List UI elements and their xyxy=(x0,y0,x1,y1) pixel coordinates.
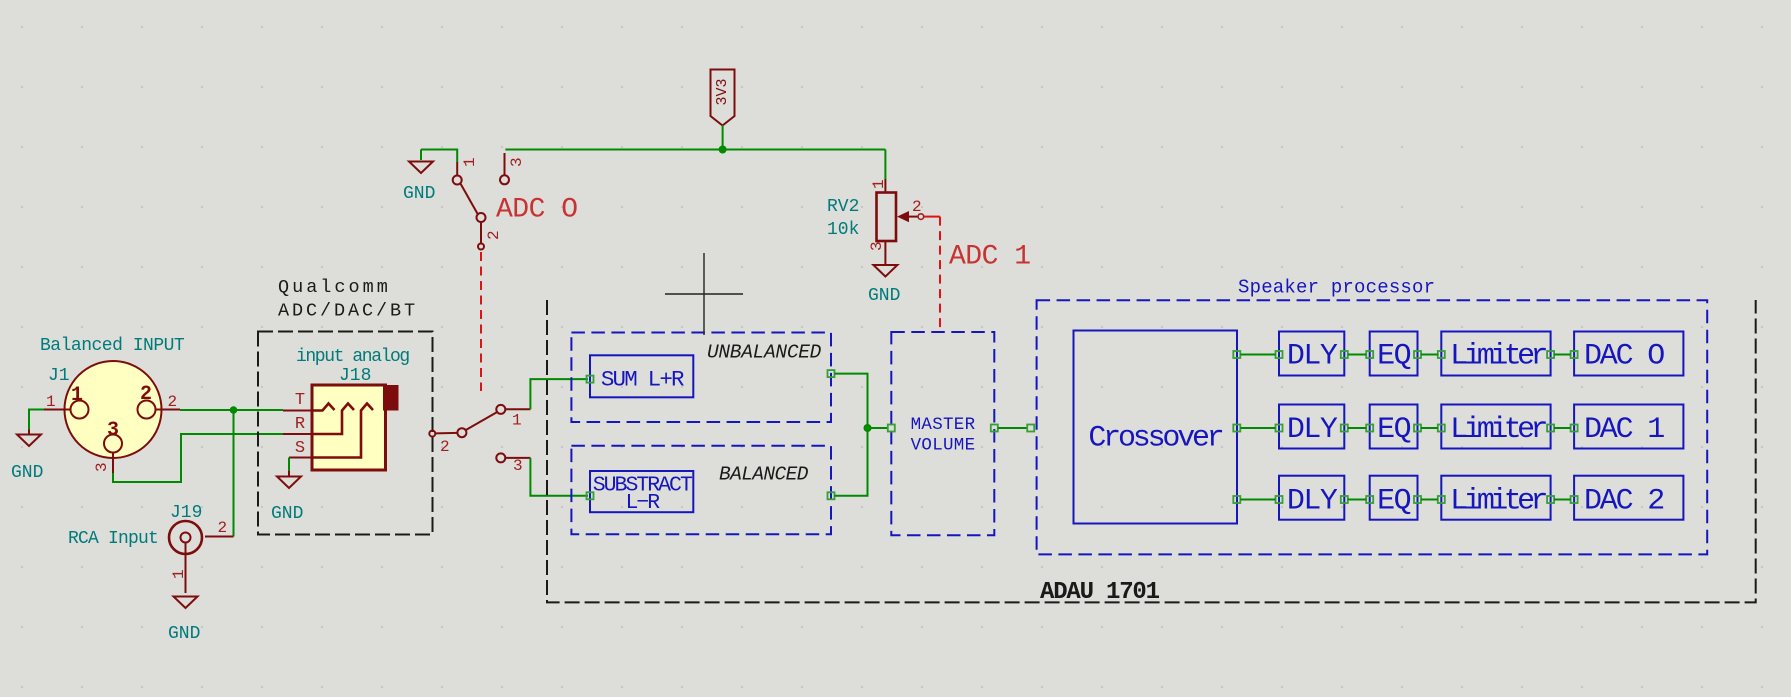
svg-text:2: 2 xyxy=(440,438,450,456)
pin square xyxy=(1276,496,1283,503)
svg-text:DAC O: DAC O xyxy=(1584,340,1664,374)
sheet Speaker processor xyxy=(1037,300,1708,554)
svg-text:R: R xyxy=(295,415,305,434)
sheet MASTER VOLUME xyxy=(891,332,994,535)
wire xyxy=(421,150,457,163)
svg-text:2: 2 xyxy=(168,393,178,411)
sheet UNBALANCED xyxy=(571,333,831,423)
block Limiter row2 xyxy=(1441,405,1550,449)
svg-text:3: 3 xyxy=(868,241,886,251)
svg-text:VOLUME: VOLUME xyxy=(911,436,976,456)
svg-text:Crossover: Crossover xyxy=(1088,422,1222,456)
box Qualcomm xyxy=(258,332,433,535)
pin square xyxy=(1414,351,1421,358)
svg-text:ADAU 1701: ADAU 1701 xyxy=(1040,579,1160,606)
wire xyxy=(998,427,1027,429)
block Crossover xyxy=(1074,331,1238,524)
pin square xyxy=(1366,351,1373,358)
wire xyxy=(288,458,290,472)
svg-text:DLY: DLY xyxy=(1287,485,1338,519)
pin square xyxy=(1571,351,1578,358)
connector J18 jack xyxy=(283,366,399,470)
block EQ row2 xyxy=(1370,405,1418,449)
svg-text:GND: GND xyxy=(868,286,900,306)
pin square xyxy=(1547,425,1554,432)
wire xyxy=(233,410,235,537)
pin square xyxy=(587,376,594,383)
wire xyxy=(113,434,283,482)
connector J19 RCA xyxy=(68,503,234,593)
junction xyxy=(719,146,727,154)
block DAC 0 xyxy=(1574,332,1683,376)
switch SW2 xyxy=(429,405,530,475)
svg-text:3: 3 xyxy=(508,157,526,167)
block DLY row1 xyxy=(1279,332,1344,376)
pin square xyxy=(1571,425,1578,432)
svg-text:RCA Input: RCA Input xyxy=(68,529,158,549)
svg-text:Speaker processor: Speaker processor xyxy=(1238,277,1435,299)
pin square xyxy=(1341,425,1348,432)
svg-text:10k: 10k xyxy=(827,220,859,240)
svg-text:3: 3 xyxy=(513,457,523,475)
pin square xyxy=(1366,425,1373,432)
pin square xyxy=(1276,351,1283,358)
ground xyxy=(868,265,900,306)
svg-text:1: 1 xyxy=(71,384,83,407)
block EQ row1 xyxy=(1370,332,1418,376)
potentiometer RV2 xyxy=(827,150,924,265)
wire xyxy=(530,379,588,409)
pin square xyxy=(991,425,998,432)
pin square xyxy=(828,492,835,499)
svg-text:EQ: EQ xyxy=(1377,413,1411,447)
svg-text:GND: GND xyxy=(168,624,200,644)
wire xyxy=(530,458,588,496)
wire xyxy=(722,125,724,150)
svg-text:1: 1 xyxy=(46,393,56,411)
svg-text:GND: GND xyxy=(271,504,303,524)
wire red to ADC1 xyxy=(924,216,940,218)
svg-text:J1: J1 xyxy=(48,366,70,386)
sheet BALANCED xyxy=(571,446,831,535)
block DAC 1 xyxy=(1574,405,1683,449)
dashed net line ADC1 xyxy=(939,217,941,331)
wire xyxy=(835,428,868,496)
block EQ row3 xyxy=(1370,476,1418,520)
pin square xyxy=(888,425,895,432)
svg-text:1: 1 xyxy=(170,569,188,579)
svg-text:3: 3 xyxy=(93,462,111,472)
svg-text:Limiter: Limiter xyxy=(1450,340,1546,374)
pin square xyxy=(1366,496,1373,503)
pin square xyxy=(1547,496,1554,503)
wire xyxy=(1240,354,1275,356)
svg-text:EQ: EQ xyxy=(1377,485,1411,519)
pin square xyxy=(1547,351,1554,358)
svg-text:S: S xyxy=(295,439,305,458)
svg-text:BALANCED: BALANCED xyxy=(719,464,809,486)
svg-text:DAC 2: DAC 2 xyxy=(1584,485,1663,519)
svg-text:Qualcomm: Qualcomm xyxy=(278,277,391,298)
wire xyxy=(835,374,868,428)
pin square xyxy=(1438,425,1445,432)
svg-text:ADC O: ADC O xyxy=(496,195,578,226)
block DLY row3 xyxy=(1279,476,1344,520)
svg-text:RV2: RV2 xyxy=(827,197,859,217)
pin square xyxy=(1438,496,1445,503)
svg-text:2: 2 xyxy=(485,230,503,240)
pin square xyxy=(587,492,594,499)
svg-text:1: 1 xyxy=(512,412,522,430)
switch SW ADC0 xyxy=(453,153,526,250)
pin square xyxy=(1571,496,1578,503)
svg-text:ADC 1: ADC 1 xyxy=(949,242,1031,273)
block Limiter row1 xyxy=(1441,332,1550,376)
pin square xyxy=(1233,496,1240,503)
connector J1 XLR xyxy=(44,361,180,473)
svg-text:EQ: EQ xyxy=(1377,340,1411,374)
svg-text:DLY: DLY xyxy=(1287,413,1338,447)
junction xyxy=(864,424,872,432)
svg-text:UNBALANCED: UNBALANCED xyxy=(707,342,822,364)
block DLY row2 xyxy=(1279,405,1344,449)
pin square xyxy=(1414,496,1421,503)
svg-text:Limiter: Limiter xyxy=(1450,485,1546,519)
svg-text:1: 1 xyxy=(870,179,888,189)
svg-text:2: 2 xyxy=(140,383,152,406)
svg-text:SUM L+R: SUM L+R xyxy=(601,367,684,393)
pin square xyxy=(828,370,835,377)
pin square xyxy=(1438,351,1445,358)
svg-text:2: 2 xyxy=(218,519,228,537)
wire xyxy=(505,149,885,151)
svg-text:3V3: 3V3 xyxy=(714,78,731,105)
wire xyxy=(29,410,44,430)
wire xyxy=(868,427,888,429)
dashed net line ADC0 xyxy=(480,252,482,391)
svg-text:input analog: input analog xyxy=(296,347,409,367)
svg-text:Balanced INPUT: Balanced INPUT xyxy=(40,336,185,356)
block DAC 2 xyxy=(1574,476,1683,520)
junction xyxy=(230,406,238,414)
pin square xyxy=(1341,496,1348,503)
pin square xyxy=(1414,425,1421,432)
box ADAU 1701 xyxy=(547,300,1756,602)
pin square xyxy=(1341,351,1348,358)
svg-text:3: 3 xyxy=(107,419,119,442)
ground xyxy=(403,150,435,205)
svg-text:L−R: L−R xyxy=(625,491,660,515)
svg-text:DAC 1: DAC 1 xyxy=(1584,413,1664,447)
wire xyxy=(180,409,283,411)
ground xyxy=(11,430,43,484)
svg-text:2: 2 xyxy=(912,198,922,216)
wire xyxy=(1240,427,1275,429)
pin square xyxy=(1233,425,1240,432)
wire xyxy=(1240,499,1275,501)
svg-text:1: 1 xyxy=(461,157,479,167)
svg-text:GND: GND xyxy=(11,463,43,483)
pin square xyxy=(1027,425,1034,432)
block Limiter row3 xyxy=(1441,476,1550,520)
svg-text:ADC/DAC/BT: ADC/DAC/BT xyxy=(278,301,418,322)
svg-text:MASTER: MASTER xyxy=(911,415,976,435)
pin square xyxy=(1276,425,1283,432)
block SUBSTRACT L-R xyxy=(590,471,693,515)
block SUM L+R xyxy=(590,355,693,397)
power 3V3 xyxy=(711,70,735,126)
ground xyxy=(271,471,303,524)
svg-text:J18: J18 xyxy=(339,366,371,386)
ground xyxy=(168,597,200,645)
svg-text:T: T xyxy=(295,391,305,410)
cross graphic xyxy=(665,253,743,335)
svg-text:Limiter: Limiter xyxy=(1450,413,1546,447)
svg-text:GND: GND xyxy=(403,184,435,204)
svg-text:DLY: DLY xyxy=(1287,340,1338,374)
pin square xyxy=(1233,351,1240,358)
